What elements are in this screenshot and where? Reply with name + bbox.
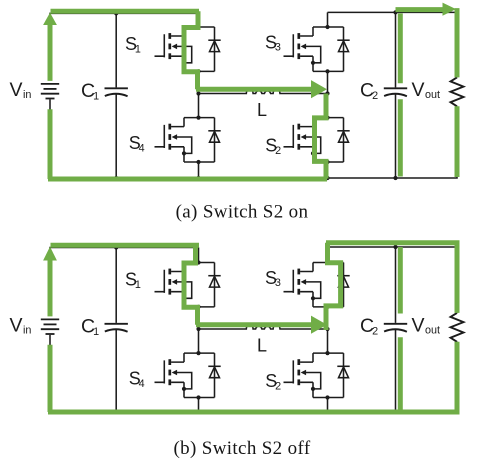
green wire: bottom return rail (fig a) [48,109,327,179]
body diode of S2 (fig b) [337,366,349,377]
green wire: through S1 channel (fig a) [184,11,198,89]
green wire: C2 bottom stub (fig a) [398,99,403,176]
transistor S4 (fig b) [155,353,215,397]
green wire: Vin up arrow shaft (fig b) [48,260,53,317]
body diode of S1 (fig b) [208,276,220,287]
wire: middle link with inductor L (fig a) [199,89,328,93]
wire: bottom ground rail (fig a) [50,106,457,178]
capacitor C1 (fig a) [105,13,128,178]
body diode of S4 (fig b) [208,366,220,377]
wire: S1 top lead (fig a) [198,13,200,27]
body diode of S4 (fig a) [208,131,220,142]
load resistor (fig a) [451,77,464,106]
svg-text:(a) Switch S2 on: (a) Switch S2 on [176,202,309,223]
svg-text:Vout: Vout [412,79,441,101]
body diode of S2 (fig a) [337,131,349,142]
green wire: through S1 channel (fig b) [184,245,198,325]
wire: S1 top lead (fig b) [198,248,200,263]
green wire: through S3 body diode (fig b) [326,243,341,330]
svg-text:C1: C1 [81,80,99,102]
capacitor C1 (fig b) [105,248,128,413]
svg-text:Vin: Vin [10,314,32,336]
green wire: inductor arrow shaft (fig a) [196,87,311,92]
wire: S1-S4 mid leads (fig b) [198,307,200,353]
svg-text:S1: S1 [125,270,141,291]
green wire: inductor arrow shaft (fig b) [196,322,311,327]
green arrowhead right at L (fig a) [311,80,327,98]
svg-text:C1: C1 [81,316,99,338]
green arrowhead up at Vin (fig b) [43,247,57,261]
wire: output top rail (fig a) [328,12,458,77]
wire: S4 bottom lead (fig b) [198,398,200,413]
svg-text:S2: S2 [265,136,281,157]
body diode of S1 (fig a) [208,40,220,51]
svg-text:S1: S1 [125,34,141,55]
wire: bottom ground rail (fig b) [50,342,457,412]
green wire: input top rail (fig b) [51,243,200,248]
capacitor C2 (fig b) [384,247,407,412]
green wire: output rail to load (fig b) [326,243,457,313]
wire: S1-S4 mid leads (fig a) [198,71,200,117]
green arrowhead up at Vin (fig a) [43,13,57,25]
green wire: C2 top stub (fig a) [398,13,403,83]
wire: middle link with inductor L (fig b) [199,325,328,329]
body diode of S3 (fig a) [337,40,349,51]
capacitor C2 (fig a) [384,12,407,178]
load resistor (fig b) [451,313,464,342]
junction dots on rails (fig b) [114,245,398,414]
svg-text:L: L [257,100,267,120]
transistor S2 (fig b) [284,353,344,397]
green wire: C2 top stub (fig b) [398,247,403,314]
wire: output top rail (fig b) [328,247,458,313]
svg-text:S4: S4 [129,133,145,154]
battery Vin source (fig b) [41,319,59,345]
green wire: load branch (fig a) [455,8,460,177]
wire: input top rail (fig b) [50,248,199,316]
svg-text:C2: C2 [360,80,378,102]
body diode of S3 (fig b) [337,276,349,287]
svg-text:S3: S3 [265,32,281,53]
green wire: output rail arrow shaft (fig a) [396,7,444,12]
transistor S4 (fig a) [155,118,215,162]
svg-text:Vin: Vin [10,79,32,101]
wire: input top rail (fig a) [50,13,199,80]
transistor S1 (fig a) [155,27,215,71]
svg-text:Vout: Vout [412,314,441,336]
transistor S3 (fig b) [284,263,344,307]
svg-text:S4: S4 [129,369,145,390]
svg-text:S2: S2 [265,371,281,392]
wire: S3 top lead (fig b) [327,247,329,263]
green arrowhead right at L (fig b) [311,316,327,334]
green wire: Vin up arrow shaft (fig a) [48,24,53,81]
svg-text:L: L [257,336,267,356]
transistor S2 (fig a) [284,118,344,162]
junction dots on rails (fig a) [114,10,398,180]
transistor S3 (fig a) [284,27,344,71]
green arrowhead right at output (fig a) [443,3,457,16]
wire: S2 bottom lead (fig a) [327,162,329,178]
svg-text:C2: C2 [360,315,378,337]
battery Vin source (fig a) [41,84,59,110]
green wire: input top rail (fig a) [51,9,200,14]
wire: S3 top lead (fig a) [327,12,329,27]
wire: S2 bottom lead (fig b) [327,398,329,413]
svg-text:(b) Switch S2 off: (b) Switch S2 off [173,438,310,459]
green wire: C2 bottom stub (fig b) [398,337,403,410]
wire: S4 bottom lead (fig a) [198,162,200,178]
green wire: load to bottom return rail (fig b) [48,342,457,412]
svg-text:S3: S3 [265,268,281,289]
transistor S1 (fig b) [155,263,215,307]
wire: S3-S2 mid leads (fig a) [327,71,329,117]
green wire: through S2 channel (fig a) [315,94,327,179]
wire: S3-S2 mid leads (fig b) [327,307,329,353]
